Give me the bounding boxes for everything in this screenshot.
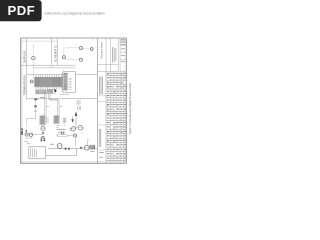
- signal up arrow: [75, 112, 78, 116]
- title col line 1: [105, 38, 107, 163]
- band divider 1: [21, 64, 76, 66]
- label box: [58, 135, 67, 137]
- field terminal block 1: [40, 116, 45, 125]
- transducer G: [78, 125, 83, 130]
- flow arrow: [80, 147, 82, 149]
- band header strip line: [26, 38, 28, 100]
- signal down arrow: [72, 116, 74, 119]
- cable tag below block1: [40, 97, 45, 99]
- duct stub 1: [49, 65, 51, 68]
- recorder D: [90, 48, 93, 51]
- sub-strip line 2: [56, 38, 58, 65]
- transducer F: [71, 127, 75, 131]
- connector dark plug: [54, 90, 56, 92]
- terminal strip block: [35, 77, 63, 87]
- indicator C: [79, 58, 82, 61]
- note tick: [63, 124, 65, 126]
- second speck rows: [107, 74, 108, 76]
- pipe main: [48, 148, 64, 150]
- svg-text:TERMINATIONS: TERMINATIONS: [23, 75, 27, 95]
- signal dashed to L1: [32, 45, 34, 56]
- lt tag text: [90, 150, 94, 152]
- signal A-B: [66, 47, 80, 49]
- terminal ticks below: [35, 87, 37, 89]
- wires block1 to positioner: [41, 125, 43, 127]
- title mid divider: [97, 64, 118, 66]
- svg-text:SCHEMATIC: SCHEMATIC: [53, 45, 57, 62]
- title col line 2: [110, 38, 112, 163]
- cable pair 1: [44, 94, 46, 116]
- lt stem: [86, 140, 88, 145]
- title col line 3: [117, 38, 119, 71]
- line tag 1: [34, 98, 37, 100]
- signal A-C: [66, 58, 79, 60]
- signal A up: [63, 48, 65, 56]
- line tag 2: [34, 105, 37, 107]
- signal G right: [83, 127, 85, 129]
- controller A: [62, 56, 65, 59]
- left col sub rows: [97, 95, 106, 97]
- level transmitter LT: [84, 145, 89, 150]
- notes box: [29, 147, 46, 159]
- title top rows: [120, 39, 126, 41]
- wire I to valve: [33, 133, 43, 135]
- stem K down: [75, 137, 77, 146]
- rotated desc block 1: [98, 77, 100, 95]
- lt elbow: [87, 139, 89, 141]
- svg-text:Process Area: Process Area: [100, 42, 104, 59]
- left col bottom specks: [99, 152, 104, 154]
- dotted signal down: [25, 124, 27, 131]
- control valve body: [41, 139, 45, 142]
- field wire ticks lower: [77, 106, 79, 110]
- line tag 3: [34, 110, 37, 112]
- connector block 2: [47, 89, 55, 93]
- bubble K: [74, 134, 77, 137]
- junction box bottom seg: [60, 94, 70, 96]
- field terminal block 2: [54, 116, 59, 124]
- table cell entries: [107, 72, 110, 74]
- ip text row 2: [58, 131, 65, 133]
- indicator L1: [32, 56, 36, 60]
- title col line 6: [115, 71, 117, 163]
- title table top: [97, 70, 126, 72]
- standpipe: [76, 149, 78, 156]
- transmitter I: [29, 133, 32, 136]
- positioner bubble: [41, 127, 45, 131]
- cable pair 2 elbow: [49, 93, 58, 116]
- pneumatic line from panel: [26, 100, 35, 123]
- band divider 3: [27, 98, 98, 100]
- label line: [56, 135, 73, 137]
- ticks below H/I: [25, 137, 27, 139]
- drawing outer border: [21, 38, 127, 163]
- strip-to-block wires: [41, 88, 43, 91]
- cable bubble E: [30, 80, 33, 83]
- control valve actuator dome: [41, 136, 45, 138]
- rotated desc block 2: [98, 129, 100, 147]
- ip bubble J: [61, 132, 64, 135]
- junction box wire labels: [69, 77, 72, 79]
- signal stub down: [81, 130, 83, 134]
- transmitter H: [25, 133, 28, 136]
- rotated title text block: [111, 47, 113, 63]
- pump bubble M: [57, 143, 62, 148]
- block 1 label: [46, 117, 48, 124]
- notes text lines: [30, 148, 32, 157]
- band divider 2: [27, 74, 98, 76]
- title table rows: [106, 75, 126, 77]
- cable tag speck 1: [47, 106, 49, 108]
- lower pipe: [46, 154, 77, 156]
- transmitter tag specks: [24, 141, 28, 143]
- title block divider: [96, 38, 98, 163]
- svg-text:DISPLAY: DISPLAY: [23, 51, 27, 63]
- tag specks below arrow: [69, 127, 73, 129]
- tag specks: [50, 143, 54, 145]
- inner border bottom: [21, 161, 127, 163]
- terminal ticks above: [35, 75, 37, 77]
- title col line 7: [122, 71, 124, 163]
- valve arrow: [42, 132, 44, 135]
- hand valve: [65, 147, 70, 150]
- svg-text:FIELD: FIELD: [20, 128, 24, 135]
- inner border left: [21, 38, 23, 163]
- duct stub 2: [53, 65, 55, 68]
- title col line 4: [119, 38, 121, 163]
- svg-text:Figure 7.4: Example Loop Diagr: Figure 7.4: Example Loop Diagram (Level …: [128, 83, 132, 134]
- page background: [0, 0, 149, 198]
- connector block 1: [36, 90, 47, 94]
- header strip top segment: [21, 40, 58, 42]
- svg-text:PDF: PDF: [8, 3, 36, 18]
- cable tag speck 2: [60, 106, 62, 108]
- top cells text: [121, 38, 126, 40]
- wireway line: [33, 67, 75, 69]
- PDF badge: [0, 0, 42, 21]
- sub-strip line 1: [50, 38, 52, 65]
- inner border right: [124, 38, 126, 163]
- field wire ticks upper: [76, 100, 78, 105]
- stub divider x93: [92, 38, 94, 41]
- signal B-D: [83, 48, 90, 50]
- orifice block: [90, 145, 95, 149]
- junction box: [63, 72, 76, 93]
- indicator B: [79, 47, 82, 50]
- block2 tag specks: [57, 125, 60, 127]
- wire L1 down: [32, 60, 34, 79]
- svg-text:Instrument Loop Diagrams Docum: Instrument Loop Diagrams Documentation: [44, 11, 105, 15]
- title col line 5: [112, 71, 114, 163]
- ip text row 1: [56, 128, 66, 130]
- rotated note text: [62, 118, 64, 123]
- junction box terminal strip: [64, 73, 68, 91]
